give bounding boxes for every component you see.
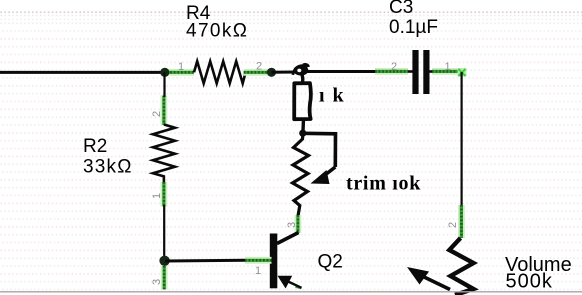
svg-text:2: 2 [256, 61, 262, 73]
wire: black wire node E to Q2 base [165, 259, 246, 263]
svg-text:R2: R2 [83, 136, 107, 157]
wire: black wire R2 pin1 down to node E [163, 205, 165, 262]
node A junction dot [160, 68, 169, 77]
svg-text:33kΩ: 33kΩ [83, 156, 133, 177]
svg-text:ı k: ı k [319, 85, 345, 107]
svg-text:1: 1 [151, 193, 163, 199]
wire: vertical wire from node C down to volume pot [461, 72, 463, 206]
wiper arrow of trim pot [311, 167, 336, 184]
svg-text:1: 1 [445, 61, 451, 73]
node C: green X connection marker [458, 68, 467, 77]
resistor R4 zigzag [194, 61, 246, 83]
wire: green segment node E down to ground rail [161, 266, 168, 290]
svg-text:470kΩ: 470kΩ [186, 20, 248, 41]
svg-text:3: 3 [286, 222, 298, 228]
wire: green segment C3 pin 1 to node C [432, 68, 463, 75]
wire: green segment R4 pin 2 to junction [244, 69, 270, 76]
wire: bottom ground rail [0, 291, 582, 293]
wire: trim wiper loop right and down [303, 133, 336, 167]
resistor R2 zigzag (vertical) [153, 125, 175, 183]
wire: input wire from left edge to node A [0, 71, 165, 74]
junction dot right of R4 [267, 68, 276, 77]
transistor Q2: base bar [270, 234, 278, 289]
wire: green segment to C3 pin 2 [375, 68, 408, 75]
wiper arrow of volume pot [407, 267, 450, 290]
wire: green segment Q2 base pin 1 [245, 257, 272, 264]
svg-text:500k: 500k [506, 271, 553, 293]
wire: black stub node A down [163, 72, 165, 97]
wire: black segment hand node to C3 [305, 70, 379, 73]
wire: stub 1k box to node D [301, 119, 305, 131]
transistor Q2: collector line [277, 233, 299, 244]
wire: green segment R2 pin 2 [160, 96, 167, 126]
capacitor C3 [408, 50, 434, 94]
wire: stub from node B to 1k box [302, 74, 303, 82]
svg-text:3: 3 [151, 279, 163, 285]
svg-text:0.1µF: 0.1µF [389, 17, 438, 38]
svg-text:2: 2 [447, 222, 459, 228]
wire: black segment to hand-drawn node [272, 71, 297, 74]
node B: hand-drawn blob junction [293, 65, 308, 75]
potentiometer Volume 500k hand-drawn zigzag [449, 238, 473, 295]
svg-text:2: 2 [151, 111, 163, 117]
svg-text:1: 1 [178, 61, 184, 73]
transistor Q2: emitter arrow [278, 276, 302, 289]
trimmer resistor zigzag (trim 10k) [293, 135, 309, 216]
node D: hand-drawn junction dot [299, 130, 306, 137]
wire: green highlighted segment node A to R4 pin 1 [163, 69, 194, 76]
node E junction dot [159, 256, 169, 266]
wire: green segment R2 pin 1 [160, 182, 167, 207]
svg-text:1: 1 [255, 265, 261, 277]
svg-text:C3: C3 [389, 0, 413, 18]
svg-text:trim ıok: trim ıok [346, 173, 421, 195]
wire: green segment volume pot pin 2 [458, 205, 465, 238]
resistor 1k: hand-drawn box [294, 83, 311, 119]
svg-text:2: 2 [391, 61, 397, 73]
svg-text:Q2: Q2 [318, 252, 343, 273]
wire: green segment trim to Q2 collector [294, 215, 301, 233]
